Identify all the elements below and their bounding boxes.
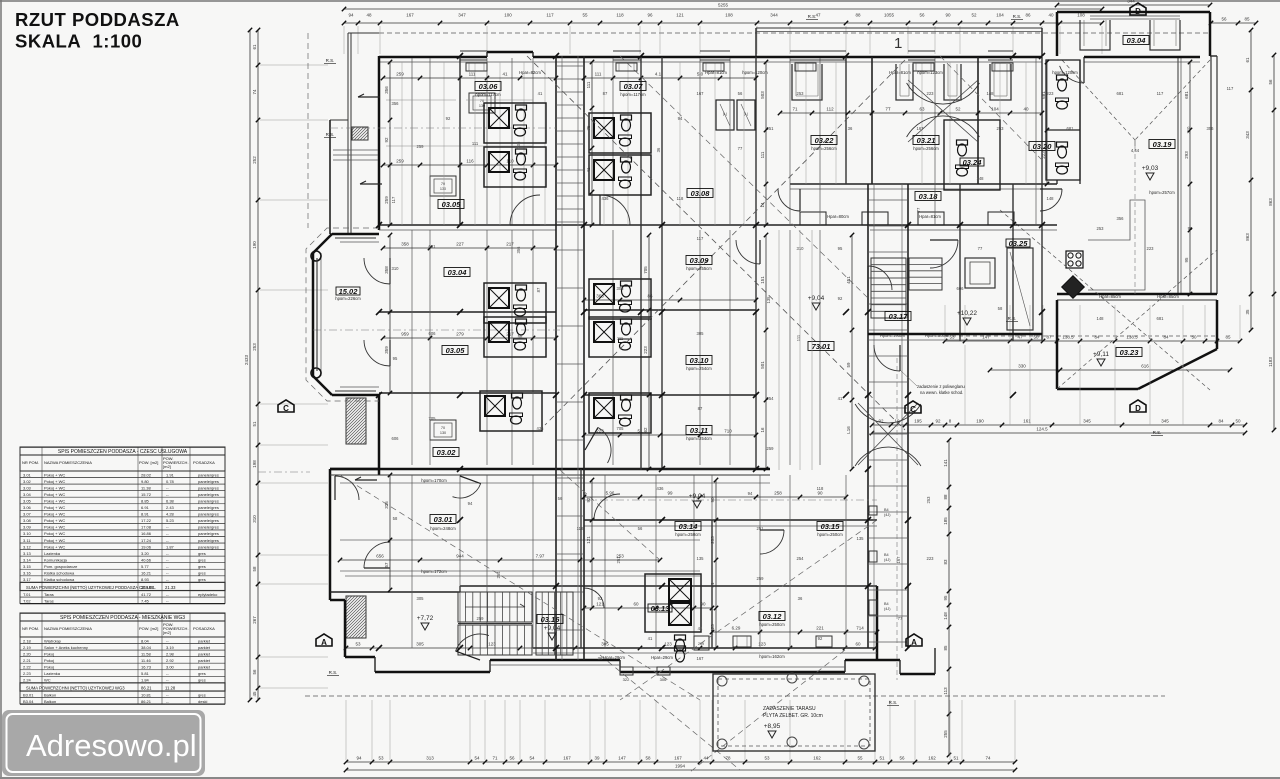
svg-text:110: 110 [506, 159, 514, 164]
level +9.03 [1142, 165, 1159, 180]
staircase south-west [458, 592, 573, 655]
Hpar labels y=215 [827, 214, 941, 219]
svg-text:305: 305 [697, 331, 705, 336]
svg-text:Pokoj + WC: Pokoj + WC [44, 498, 65, 503]
svg-text:2.20: 2.20 [23, 651, 32, 656]
room schedule table (services) [20, 447, 225, 604]
svg-text:panele/gres: panele/gres [198, 472, 219, 477]
svg-text:03.07: 03.07 [624, 82, 644, 91]
svg-text:94: 94 [348, 13, 354, 18]
svg-text:55: 55 [857, 756, 863, 761]
svg-text:R.S.: R.S. [1153, 430, 1162, 435]
svg-text:17.22: 17.22 [141, 518, 152, 523]
extra door arcs [453, 57, 1085, 608]
svg-text:16.73: 16.73 [141, 664, 152, 669]
svg-text:T.02: T.02 [23, 598, 31, 603]
svg-text:11.58: 11.58 [141, 651, 151, 656]
svg-text:681: 681 [1067, 126, 1075, 131]
svg-text:255: 255 [943, 730, 948, 738]
svg-text:03.05: 03.05 [442, 200, 462, 209]
staircase 03.17 east [871, 248, 1033, 330]
svg-text:panele/gres: panele/gres [198, 492, 219, 497]
svg-text:NAZWA POMIESZCZENIA: NAZWA POMIESZCZENIA [44, 460, 92, 465]
bath cluster 1 [484, 103, 546, 143]
svg-text:41: 41 [586, 167, 591, 173]
door arcs spine2 mid (X motif) [855, 403, 921, 466]
svg-text:58: 58 [645, 756, 651, 761]
bath cluster 6 [484, 317, 546, 357]
svg-text:71: 71 [492, 756, 498, 761]
svg-text:249.87: 249.87 [141, 585, 154, 590]
room label 03.20 [1029, 142, 1055, 151]
svg-text:92: 92 [586, 497, 591, 503]
porch slat lines [333, 150, 378, 160]
svg-text:3.16: 3.16 [23, 571, 32, 576]
svg-text:293: 293 [1184, 151, 1189, 159]
west wall lower block [330, 469, 379, 600]
svg-text:111: 111 [760, 151, 765, 158]
room label 03.04 [444, 268, 470, 277]
svg-text:53: 53 [764, 756, 770, 761]
svg-text:87: 87 [1046, 335, 1052, 340]
south-west block bottom [330, 600, 490, 672]
svg-text:95: 95 [1184, 257, 1189, 263]
svg-text:03.17: 03.17 [889, 312, 909, 321]
svg-text:40: 40 [1023, 107, 1029, 112]
svg-text:863: 863 [1245, 233, 1250, 241]
svg-text:hpom=250cm: hpom=250cm [675, 532, 701, 537]
svg-text:54: 54 [474, 756, 480, 761]
svg-text:92: 92 [818, 636, 823, 641]
svg-text:Klatka schodowa: Klatka schodowa [44, 577, 75, 582]
svg-text:138.5: 138.5 [1062, 335, 1074, 340]
window marks east wall x=877 [869, 506, 891, 615]
radiators top wall [466, 63, 1013, 71]
svg-text:03.19: 03.19 [1153, 140, 1173, 149]
room label 03.09 [686, 256, 712, 265]
south wall windows lower band [490, 665, 845, 667]
right wing south wall y=294 [1057, 294, 1217, 300]
svg-text:606: 606 [429, 331, 437, 336]
svg-text:221: 221 [816, 626, 824, 631]
svg-text:gres: gres [198, 678, 206, 683]
svg-text:Pokoj + WC: Pokoj + WC [44, 472, 65, 477]
svg-text:3.01: 3.01 [23, 472, 32, 477]
section marker C right [905, 401, 921, 414]
kitchen counter path [1088, 200, 1145, 290]
dashed roof outline bottom [305, 695, 1165, 697]
svg-text:35: 35 [1245, 309, 1250, 315]
left dimension chain [252, 28, 260, 702]
svg-text:86: 86 [647, 294, 653, 299]
svg-text:503: 503 [760, 91, 765, 99]
svg-text:58: 58 [393, 516, 398, 521]
svg-text:356: 356 [516, 246, 521, 254]
svg-text:03.23: 03.23 [1120, 348, 1140, 357]
section marker D top [1130, 3, 1146, 16]
svg-text:104: 104 [996, 13, 1004, 18]
svg-text:15.02: 15.02 [339, 287, 359, 296]
bath cluster 3 [589, 113, 651, 153]
svg-text:6.91: 6.91 [141, 505, 150, 510]
svg-text:parkiet: parkiet [198, 645, 211, 650]
hpom annotations [421, 92, 939, 659]
svg-text:74: 74 [252, 89, 257, 95]
svg-text:73.01: 73.01 [812, 342, 831, 351]
svg-text:705: 705 [617, 426, 625, 431]
svg-text:330: 330 [1018, 364, 1026, 369]
svg-text:259: 259 [396, 159, 404, 164]
svg-text:03.14: 03.14 [679, 522, 699, 531]
wall y=469 top of 03.01 [330, 469, 770, 475]
svg-text:SUMA POWIERZCHNI (NETTO) UZYTK: SUMA POWIERZCHNI (NETTO) UZYTKOWEJ PODDA… [26, 585, 156, 590]
svg-text:305: 305 [617, 286, 625, 291]
svg-text:Taras: Taras [44, 592, 54, 597]
svg-text:3.11: 3.11 [23, 538, 31, 543]
svg-text:87: 87 [698, 406, 703, 411]
right area chain y=370 [988, 364, 1232, 373]
svg-text:1.84: 1.84 [141, 678, 150, 683]
svg-text:hpom=255cm: hpom=255cm [686, 266, 712, 271]
svg-text:124.5: 124.5 [1036, 427, 1048, 432]
svg-text:POSADZKA: POSADZKA [193, 626, 215, 631]
svg-text:3.00: 3.00 [166, 664, 175, 669]
svg-text:62: 62 [643, 427, 648, 433]
svg-text:Pokoj: Pokoj [44, 664, 54, 669]
svg-text:117: 117 [697, 236, 704, 241]
svg-text:61: 61 [1245, 57, 1250, 63]
svg-text:190: 190 [976, 419, 984, 424]
svg-text:141: 141 [943, 459, 948, 467]
window stubs below south wall [620, 667, 670, 682]
svg-text:4,44: 4,44 [1131, 148, 1140, 153]
cabinet 03.02 [430, 420, 456, 440]
bath cluster 9 [480, 391, 542, 431]
svg-text:167: 167 [563, 756, 571, 761]
radiators south wall 03.12 [733, 636, 832, 647]
svg-text:167: 167 [697, 91, 705, 96]
bottom dimension chains [344, 756, 1017, 765]
svg-text:0.78: 0.78 [166, 479, 175, 484]
svg-text:2.24: 2.24 [23, 678, 32, 683]
svg-text:(L): (L) [744, 112, 748, 116]
svg-text:03.21: 03.21 [917, 136, 936, 145]
svg-text:606: 606 [392, 436, 400, 441]
dashed diagonal C [620, 56, 870, 300]
svg-text:03.11: 03.11 [690, 426, 708, 435]
top overall dimension [342, 3, 1104, 12]
svg-text:hpom=248cm: hpom=248cm [430, 526, 456, 531]
svg-text:WC: WC [44, 678, 51, 683]
section marker A left [316, 634, 332, 647]
svg-text:03.01: 03.01 [434, 515, 453, 524]
svg-text:45: 45 [252, 691, 257, 697]
svg-text:Pokoj + WC: Pokoj + WC [44, 479, 65, 484]
svg-text:+9,04: +9,04 [689, 493, 706, 500]
svg-text:681: 681 [1041, 91, 1046, 99]
chain above bottom (y=648) [344, 642, 877, 651]
svg-text:Adresowo.pl: Adresowo.pl [26, 728, 197, 763]
svg-text:58: 58 [518, 334, 523, 339]
svg-text:84: 84 [1218, 419, 1224, 424]
wall x=581 low [581, 469, 712, 648]
svg-text:03.09: 03.09 [690, 256, 710, 265]
svg-text:117: 117 [546, 13, 554, 18]
scattered dimension numbers [391, 86, 1234, 661]
svg-text:130: 130 [440, 431, 446, 435]
svg-text:959: 959 [401, 332, 409, 337]
svg-text:Pokoj + WC: Pokoj + WC [44, 492, 65, 497]
svg-text:B4: B4 [884, 553, 889, 557]
svg-text:92: 92 [935, 419, 941, 424]
svg-text:99: 99 [667, 491, 673, 496]
svg-text:223: 223 [1047, 91, 1055, 96]
svg-text:5.23: 5.23 [166, 518, 175, 523]
dashed diagonal A [527, 56, 905, 430]
svg-text:356: 356 [392, 101, 400, 106]
bath cluster 7 [589, 279, 651, 319]
svg-text:90: 90 [710, 497, 715, 503]
wing dashed diagonals [1000, 60, 1217, 390]
bay corner circles [311, 251, 321, 378]
bath cluster 10 [589, 393, 651, 433]
room label 03.21 [913, 136, 939, 145]
svg-text:R.S.: R.S. [326, 132, 335, 137]
svg-text:710: 710 [724, 429, 732, 434]
right area chain y=341 [943, 335, 1242, 344]
svg-text:90: 90 [817, 491, 823, 496]
svg-text:36: 36 [848, 126, 853, 131]
wing label 03.04 [1123, 36, 1149, 45]
svg-text:panele/gres: panele/gres [198, 518, 219, 523]
svg-text:panele/gres: panele/gres [198, 544, 219, 549]
bath 03.13 [645, 574, 701, 651]
svg-text:253: 253 [710, 536, 715, 544]
dashed diagonal F [940, 56, 1042, 160]
closet lines left rooms [386, 100, 533, 146]
svg-text:Hpar=29cm: Hpar=29cm [603, 655, 625, 660]
vertical thin lines in 73.01 [779, 230, 812, 470]
svg-text:C: C [283, 404, 289, 413]
svg-text:3.20: 3.20 [141, 551, 150, 556]
top-right small dim chain [1209, 17, 1258, 26]
room label 03.05 [438, 200, 464, 209]
svg-text:Lazienka: Lazienka [44, 671, 61, 676]
room label 03.25 [1006, 239, 1030, 248]
room label 03.07 [620, 82, 646, 91]
svg-text:1183: 1183 [1268, 357, 1273, 367]
svg-text:16: 16 [760, 427, 765, 433]
svg-text:Hpom=196cm: Hpom=196cm [880, 333, 906, 338]
svg-text:111: 111 [617, 336, 624, 341]
svg-text:POW. [m2]: POW. [m2] [139, 460, 158, 465]
svg-text:48: 48 [366, 13, 372, 18]
svg-text:1: 1 [894, 35, 902, 52]
03.01 inner lines [340, 483, 770, 576]
Hpar labels bottom [603, 655, 673, 660]
svg-text:1055: 1055 [884, 13, 895, 18]
svg-text:39: 39 [594, 756, 600, 761]
east glazing wall [1178, 56, 1217, 294]
svg-text:54: 54 [529, 756, 535, 761]
dashed X below building [560, 470, 845, 772]
svg-text:254: 254 [496, 571, 501, 579]
storage box 03.12 [694, 636, 709, 650]
svg-text:11.46: 11.46 [141, 658, 151, 663]
svg-text:71: 71 [792, 107, 798, 112]
NE bath right wall [1057, 60, 1080, 184]
room label 03.16 [537, 615, 563, 624]
svg-text:56: 56 [252, 669, 257, 675]
svg-text:59: 59 [846, 362, 851, 368]
svg-text:POW. [m2]: POW. [m2] [139, 626, 158, 631]
svg-text:[m2]: [m2] [163, 464, 171, 469]
svg-text:190: 190 [252, 241, 257, 249]
arrow marks left [355, 94, 382, 480]
svg-text:(4J): (4J) [884, 513, 891, 517]
hatched pier bottom-left [346, 596, 366, 638]
svg-text:111: 111 [595, 72, 602, 77]
svg-text:11.28: 11.28 [165, 686, 176, 691]
svg-text:345: 345 [1083, 419, 1091, 424]
svg-text:123: 123 [758, 642, 766, 647]
svg-text:03.25: 03.25 [1009, 239, 1029, 248]
svg-text:50: 50 [1191, 335, 1197, 340]
room label 03.01 [430, 515, 456, 524]
svg-text:117: 117 [391, 196, 396, 203]
svg-text:16.21: 16.21 [141, 571, 152, 576]
svg-text:11.38: 11.38 [141, 485, 151, 490]
svg-text:306: 306 [660, 677, 667, 682]
svg-text:310: 310 [797, 246, 805, 251]
bay window lines [317, 238, 376, 391]
dashed centerlines [258, 128, 877, 500]
svg-text:4.28: 4.28 [166, 512, 175, 517]
svg-text:Balkon: Balkon [44, 699, 56, 704]
svg-text:38.04: 38.04 [141, 645, 152, 650]
dashed eave right wing [945, 335, 1217, 337]
svg-text:223: 223 [927, 91, 935, 96]
svg-text:C: C [910, 405, 916, 414]
door arcs spine2 top (X motif) [907, 80, 980, 142]
svg-text:259: 259 [417, 144, 425, 149]
door arcs top center [510, 195, 630, 225]
svg-text:52: 52 [971, 13, 977, 18]
junction ticks [376, 53, 1045, 651]
svg-text:3.05: 3.05 [23, 498, 32, 503]
svg-text:70: 70 [441, 426, 445, 430]
svg-text:gres: gres [198, 692, 206, 697]
svg-text:5255: 5255 [718, 3, 729, 8]
svg-text:Pom. gospodarcze: Pom. gospodarcze [44, 564, 78, 569]
svg-text:hpom=254cm: hpom=254cm [686, 366, 712, 371]
svg-text:+9,04: +9,04 [544, 625, 561, 632]
svg-text:Balkon: Balkon [44, 692, 56, 697]
room label 03.15 [817, 522, 843, 531]
vertical extension lines y341 chain to building [965, 345, 1183, 425]
svg-text:118: 118 [577, 526, 584, 531]
hatched pier top-left [352, 127, 368, 140]
svg-text:77: 77 [738, 146, 743, 151]
svg-text:Pokoj + WC: Pokoj + WC [44, 525, 65, 530]
corridor wall y=184 right side [790, 184, 1057, 189]
svg-text:56: 56 [638, 526, 643, 531]
svg-text:52: 52 [955, 107, 961, 112]
room label 73.01 [808, 342, 834, 351]
section marker D bottom [1130, 400, 1146, 413]
room label 03.14 [675, 522, 701, 531]
svg-text:3.09: 3.09 [23, 525, 32, 530]
svg-text:3.10: 3.10 [23, 531, 32, 536]
svg-text:359: 359 [384, 346, 389, 354]
terrace label 03.23 [1116, 348, 1142, 357]
svg-text:gres: gres [198, 564, 206, 569]
svg-text:1994: 1994 [675, 764, 686, 769]
svg-text:3.17: 3.17 [23, 577, 32, 582]
right wing window labels [1099, 294, 1179, 299]
svg-text:313: 313 [426, 756, 434, 761]
svg-text:5.77: 5.77 [141, 564, 150, 569]
svg-text:51: 51 [953, 756, 959, 761]
svg-text:162: 162 [813, 756, 821, 761]
right dimension chains [1245, 28, 1253, 332]
top-right wing outline [1042, 12, 1217, 56]
svg-text:253: 253 [997, 126, 1005, 131]
svg-text:70: 70 [441, 182, 445, 186]
top dimension chain [342, 13, 1104, 26]
svg-text:03.06: 03.06 [479, 82, 499, 91]
bay label 15.02 [335, 287, 361, 301]
svg-text:1.87: 1.87 [166, 544, 175, 549]
terrace roof outline [713, 674, 875, 751]
svg-text:55: 55 [582, 13, 588, 18]
svg-text:SKALA 1:100: SKALA 1:100 [15, 31, 142, 52]
dashed diagonal B [545, 60, 905, 425]
svg-text:7T: 7T [885, 107, 891, 112]
svg-text:2.18: 2.18 [23, 638, 32, 643]
svg-text:111: 111 [586, 81, 591, 88]
svg-text:167: 167 [917, 126, 925, 131]
svg-text:RZUT PODDASZA: RZUT PODDASZA [15, 9, 180, 30]
extension lines bottom chain [346, 700, 1015, 760]
svg-text:40: 40 [1048, 13, 1054, 18]
svg-text:Hpar=85cm: Hpar=85cm [1157, 294, 1179, 299]
svg-text:714: 714 [856, 626, 864, 631]
svg-text:130: 130 [440, 187, 446, 191]
svg-text:151: 151 [760, 276, 765, 284]
svg-text:panele/gres: panele/gres [198, 505, 219, 510]
west spine corridor [556, 56, 584, 660]
svg-text:SPIS POMIESZCZEN PODDASZA - MI: SPIS POMIESZCZEN PODDASZA - MIESZKANIE W… [60, 615, 185, 621]
svg-text:259: 259 [477, 616, 485, 621]
svg-text:344: 344 [1127, 0, 1135, 4]
svg-text:94: 94 [678, 116, 683, 121]
svg-text:78: 78 [725, 756, 731, 761]
cabinet 03.06 [469, 93, 495, 113]
wing dashed vertical [1134, 146, 1136, 294]
svg-text:03.22: 03.22 [815, 136, 835, 145]
room 03.19 label [1149, 140, 1175, 196]
cabinet 03.05 [430, 176, 456, 196]
svg-text:7.97: 7.97 [536, 554, 545, 559]
svg-text:2.22: 2.22 [23, 664, 32, 669]
dashed roof outline top [379, 32, 1210, 34]
svg-text:148: 148 [987, 91, 995, 96]
section marker C left [278, 400, 294, 413]
svg-text:hpom=226cm: hpom=226cm [335, 296, 361, 301]
svg-text:148: 148 [1047, 196, 1055, 201]
svg-text:parkiet: parkiet [198, 651, 211, 656]
